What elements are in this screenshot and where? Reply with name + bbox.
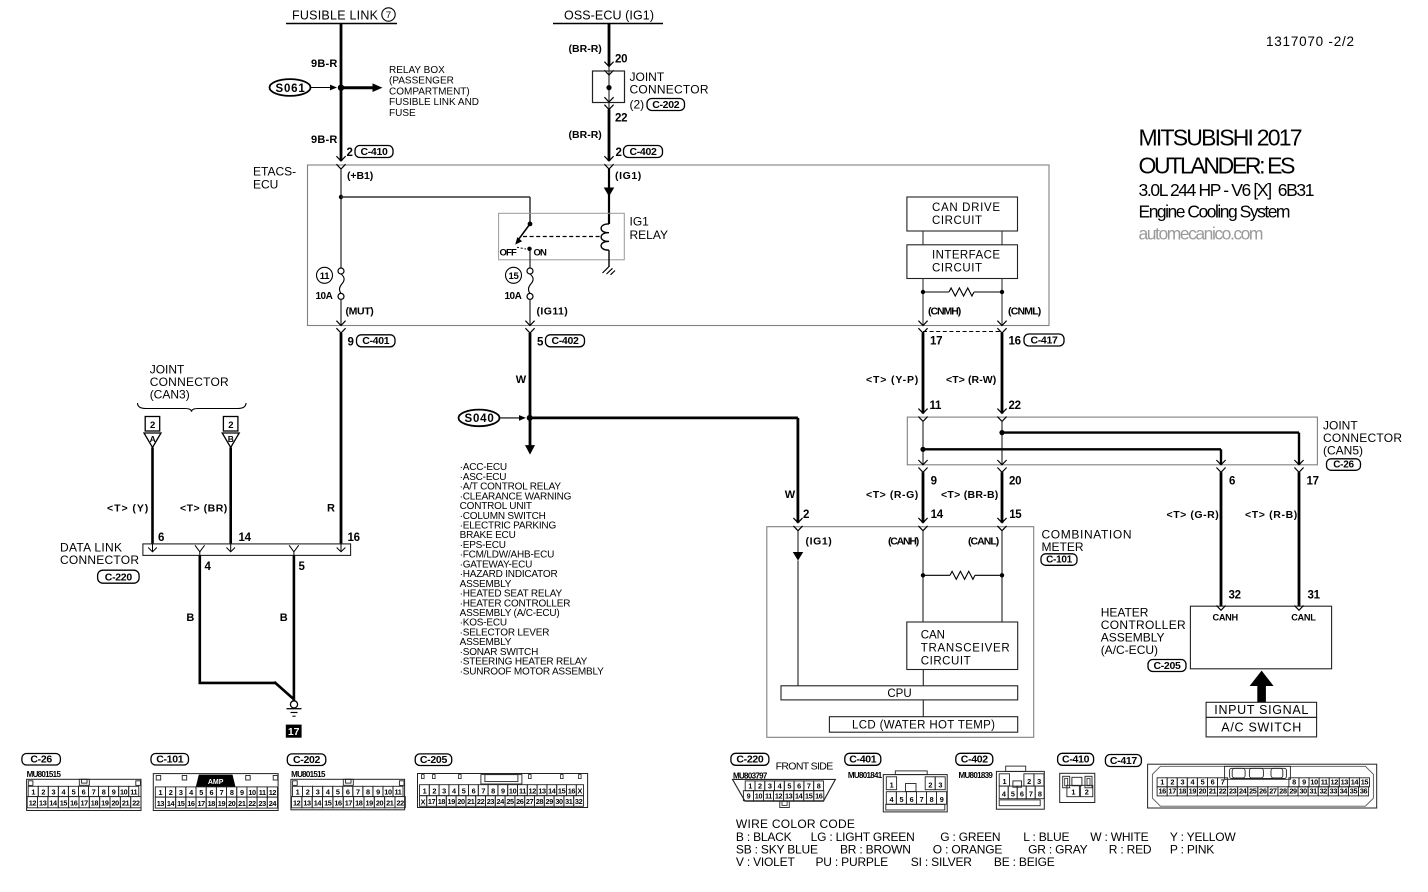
input signal arrow xyxy=(1250,671,1274,703)
relay switch arm xyxy=(515,224,530,245)
svg-text:20: 20 xyxy=(1009,476,1021,488)
svg-text:16: 16 xyxy=(815,792,823,801)
svg-text:Engine Cooling System: Engine Cooling System xyxy=(1139,202,1291,222)
wire OSS-ECU vertical BR-R lower xyxy=(608,110,611,162)
svg-text:20: 20 xyxy=(228,799,236,808)
svg-text:9B-R: 9B-R xyxy=(311,58,337,70)
arrow to relay box note xyxy=(344,83,383,92)
svg-text:17: 17 xyxy=(1307,476,1319,488)
title block xyxy=(1139,125,1315,244)
svg-text:30: 30 xyxy=(1299,787,1307,796)
svg-text:C-205: C-205 xyxy=(1153,660,1181,672)
svg-text:12: 12 xyxy=(529,787,537,796)
connector C-101 pinout xyxy=(151,753,278,810)
svg-text:C-417: C-417 xyxy=(1030,334,1058,346)
svg-text:8: 8 xyxy=(366,787,370,796)
svg-text:CAN: CAN xyxy=(921,630,945,642)
svg-text:2: 2 xyxy=(306,787,310,796)
connector label 2 C-402 top xyxy=(616,146,663,160)
wire CANH meter internal xyxy=(922,531,924,622)
svg-text:10: 10 xyxy=(384,787,392,796)
svg-text:5: 5 xyxy=(787,782,791,791)
connector C-402 pinout xyxy=(956,753,1045,809)
svg-text:15: 15 xyxy=(60,799,68,808)
svg-text:5: 5 xyxy=(537,337,544,349)
svg-text:13: 13 xyxy=(785,792,793,801)
entry chevrons IG1 meter xyxy=(793,518,802,531)
svg-text:8: 8 xyxy=(817,782,821,791)
svg-text:6: 6 xyxy=(472,787,476,796)
svg-text:23: 23 xyxy=(487,797,495,806)
svg-text:TRANSCEIVER: TRANSCEIVER xyxy=(921,643,1010,655)
svg-text:17: 17 xyxy=(80,799,88,808)
svg-text:22: 22 xyxy=(1219,787,1227,796)
svg-text:8: 8 xyxy=(1038,790,1042,799)
svg-text:1317070 -2/2: 1317070 -2/2 xyxy=(1266,34,1354,49)
svg-text:C-101: C-101 xyxy=(156,753,184,765)
svg-text:C-410: C-410 xyxy=(360,146,388,158)
svg-text:9: 9 xyxy=(376,787,380,796)
svg-text:A: A xyxy=(150,434,156,444)
svg-text:19: 19 xyxy=(365,799,373,808)
wire color code line 2 xyxy=(736,843,1214,857)
svg-text:15: 15 xyxy=(558,787,566,796)
svg-text:17: 17 xyxy=(288,726,300,738)
wire T Y to data link xyxy=(151,448,154,544)
svg-text:3: 3 xyxy=(316,787,320,796)
svg-text:RELAY BOX: RELAY BOX xyxy=(389,65,445,76)
svg-text:2: 2 xyxy=(150,420,155,431)
svg-text:22: 22 xyxy=(1009,400,1021,412)
svg-text:1: 1 xyxy=(1003,777,1007,786)
svg-text:15: 15 xyxy=(509,271,520,282)
svg-text:<T> (BR-B): <T> (BR-B) xyxy=(941,489,998,501)
svg-text:18: 18 xyxy=(355,799,363,808)
svg-text:(IG1): (IG1) xyxy=(806,536,832,548)
svg-text:20: 20 xyxy=(615,54,627,66)
svg-text:32: 32 xyxy=(1320,787,1328,796)
svg-text:16: 16 xyxy=(568,787,576,796)
svg-text:19: 19 xyxy=(101,799,109,808)
relay ON contact xyxy=(527,247,531,251)
svg-text:MU801515: MU801515 xyxy=(27,770,62,779)
svg-text:31: 31 xyxy=(565,797,573,806)
svg-text:23: 23 xyxy=(259,799,267,808)
svg-text:CANH: CANH xyxy=(1213,613,1239,623)
wire transceiver to cpu xyxy=(922,670,924,686)
svg-text:6: 6 xyxy=(1211,778,1215,787)
svg-text:27: 27 xyxy=(526,797,534,806)
svg-text:3.0L 244 HP - V6 [X] 6B31: 3.0L 244 HP - V6 [X] 6B31 xyxy=(1139,180,1315,200)
svg-text:22: 22 xyxy=(132,799,140,808)
connector label 9 C-401 xyxy=(348,335,396,349)
svg-text:7: 7 xyxy=(386,10,391,21)
connector C-410 pinout xyxy=(1058,753,1095,802)
svg-text:(BR-R): (BR-R) xyxy=(569,129,602,141)
svg-text:3: 3 xyxy=(768,782,772,791)
wire relay ON to fuse 15 xyxy=(529,251,531,268)
svg-text:18: 18 xyxy=(91,799,99,808)
svg-text:V : VIOLET: V : VIOLET xyxy=(736,855,796,869)
svg-text:PU : PURPLE: PU : PURPLE xyxy=(816,855,889,869)
ground relay coil xyxy=(603,266,616,275)
svg-text:10: 10 xyxy=(1310,778,1318,787)
IG1 feed arrow into relay xyxy=(604,188,615,197)
svg-text:5: 5 xyxy=(199,788,203,797)
svg-text:C-402: C-402 xyxy=(551,335,579,347)
dlc pin chevrons xyxy=(148,544,345,556)
svg-text:3: 3 xyxy=(179,788,183,797)
svg-text:5: 5 xyxy=(336,787,340,796)
svg-text:(+B1): (+B1) xyxy=(347,170,373,182)
entry chevrons pin 11 xyxy=(918,409,927,422)
svg-text:15: 15 xyxy=(324,799,332,808)
svg-text:ETACS-: ETACS- xyxy=(253,165,296,179)
wire IG1 to relay coil xyxy=(608,169,610,224)
svg-text:25: 25 xyxy=(1249,787,1257,796)
wire +B1 internal vertical xyxy=(340,169,342,268)
node branch to relay switch xyxy=(339,195,343,199)
svg-text:B: B xyxy=(280,612,288,624)
svg-text:18: 18 xyxy=(1179,787,1187,796)
svg-text:OFF: OFF xyxy=(500,248,517,259)
wire G-R to heater xyxy=(1220,472,1223,606)
wire branch horizontal to relay xyxy=(341,196,530,198)
svg-text:2: 2 xyxy=(1085,788,1089,797)
exit chevrons pin 17 can5 xyxy=(1294,460,1303,472)
svg-text:17: 17 xyxy=(428,797,436,806)
svg-text:B: B xyxy=(228,434,234,444)
svg-text:COMPARTMENT): COMPARTMENT) xyxy=(389,86,470,97)
relay actuation dashed line xyxy=(523,236,602,238)
svg-text:<T> (R-G): <T> (R-G) xyxy=(866,489,918,501)
svg-text:16: 16 xyxy=(1009,336,1021,348)
node CNML resistor xyxy=(1000,290,1004,294)
svg-text:15: 15 xyxy=(177,799,185,808)
svg-text:CIRCUIT: CIRCUIT xyxy=(921,656,971,668)
svg-text:(CAN3): (CAN3) xyxy=(150,388,190,402)
heater controller assembly box xyxy=(1190,606,1331,669)
svg-text:C-26: C-26 xyxy=(1333,460,1354,471)
svg-text:1: 1 xyxy=(1071,788,1075,797)
data link connector strip xyxy=(143,544,351,556)
svg-text:19: 19 xyxy=(448,797,456,806)
svg-text:(CANL): (CANL) xyxy=(968,536,999,548)
svg-text:(MUT): (MUT) xyxy=(346,306,374,318)
svg-text:16: 16 xyxy=(1158,787,1166,796)
svg-text:C-101: C-101 xyxy=(1046,555,1072,566)
svg-text:11: 11 xyxy=(259,788,266,797)
wire fuse15 to etacs bottom xyxy=(529,299,531,325)
svg-text:16: 16 xyxy=(334,799,342,808)
svg-text:ECU: ECU xyxy=(253,178,278,192)
connector C-417 pinout xyxy=(1105,755,1376,809)
wire can5 horizontal CANH xyxy=(923,448,1221,450)
svg-text:15: 15 xyxy=(1361,778,1369,787)
wire color code line 3 xyxy=(736,855,1055,869)
svg-text:11: 11 xyxy=(519,787,526,796)
svg-text:2: 2 xyxy=(169,788,173,797)
svg-text:18: 18 xyxy=(438,797,446,806)
wire fuse11 to etacs bottom xyxy=(340,299,342,325)
svg-text:FUSE: FUSE xyxy=(389,108,416,119)
svg-text:16: 16 xyxy=(187,799,195,808)
svg-text:RELAY: RELAY xyxy=(630,228,668,242)
wire B pin5 xyxy=(293,555,296,700)
entry chevron CANL heater xyxy=(1294,606,1303,611)
svg-text:25: 25 xyxy=(506,797,514,806)
svg-text:9: 9 xyxy=(931,476,937,488)
svg-text:28: 28 xyxy=(536,797,544,806)
A/C SWITCH box xyxy=(1206,717,1317,737)
svg-text:(IG1): (IG1) xyxy=(615,170,641,182)
svg-text:17: 17 xyxy=(345,799,353,808)
svg-text:6: 6 xyxy=(346,787,350,796)
svg-text:23: 23 xyxy=(1229,787,1237,796)
svg-text:C-401: C-401 xyxy=(362,335,390,347)
wire color code line 1 xyxy=(736,830,1236,844)
svg-text:R : RED: R : RED xyxy=(1109,843,1152,857)
connector C-26 pinout xyxy=(22,753,141,810)
exit chevrons MUT xyxy=(336,321,345,333)
svg-text:21: 21 xyxy=(238,799,246,808)
svg-text:9: 9 xyxy=(940,795,944,804)
svg-text:6: 6 xyxy=(910,795,914,804)
exit chevrons pin 9 xyxy=(918,460,927,472)
svg-text:3: 3 xyxy=(442,787,446,796)
connector C-401 pinout xyxy=(845,753,947,812)
svg-text:3: 3 xyxy=(1180,778,1184,787)
brace under CAN3 xyxy=(138,403,247,412)
svg-text:S061: S061 xyxy=(276,83,306,95)
wire coil to ground xyxy=(608,250,610,266)
svg-text:10: 10 xyxy=(509,787,517,796)
connector label 5 C-402 xyxy=(537,335,585,349)
svg-text:26: 26 xyxy=(1259,787,1267,796)
svg-text:W: W xyxy=(516,374,527,386)
svg-text:7: 7 xyxy=(1221,778,1225,787)
svg-text:7: 7 xyxy=(807,782,811,791)
svg-text:MU801841: MU801841 xyxy=(848,771,883,780)
svg-text:16: 16 xyxy=(348,532,360,544)
svg-text:C-402: C-402 xyxy=(961,754,989,766)
svg-text:21: 21 xyxy=(1209,787,1217,796)
svg-text:1: 1 xyxy=(159,788,163,797)
svg-text:MITSUBISHI 2017: MITSUBISHI 2017 xyxy=(1139,125,1303,151)
svg-text:8: 8 xyxy=(1292,778,1296,787)
svg-text:S040: S040 xyxy=(465,413,494,425)
svg-text:INPUT SIGNAL: INPUT SIGNAL xyxy=(1214,703,1308,717)
wire OSS-ECU vertical BR-R upper xyxy=(608,24,611,67)
diode arrow IG1 meter xyxy=(793,552,804,561)
wire can5 CANL down xyxy=(1298,433,1300,465)
wire R-B to heater xyxy=(1298,472,1301,606)
node CNMH resistor xyxy=(921,290,925,294)
svg-text:8: 8 xyxy=(491,787,495,796)
entry chevrons pin 22 xyxy=(997,409,1006,422)
exit chevrons CNMH xyxy=(918,321,927,333)
svg-text:18: 18 xyxy=(208,799,216,808)
combination meter box xyxy=(767,527,1034,738)
svg-text:C-26: C-26 xyxy=(30,753,52,765)
svg-text:36: 36 xyxy=(1360,787,1368,796)
CAN drive circuit box U-A xyxy=(907,197,1018,231)
COMBINATION METER label xyxy=(1041,528,1132,566)
svg-text:10: 10 xyxy=(755,792,763,801)
wire can5 pass-through left xyxy=(922,421,924,464)
svg-text:<T> (R-B): <T> (R-B) xyxy=(1245,509,1297,521)
svg-text:FRONT SIDE: FRONT SIDE xyxy=(776,761,834,773)
fuse 15 10A xyxy=(505,267,534,302)
svg-text:5: 5 xyxy=(72,787,76,796)
svg-text:(2): (2) xyxy=(630,98,645,112)
heater controller text xyxy=(1101,606,1186,672)
svg-text:21: 21 xyxy=(467,797,475,806)
svg-text:7: 7 xyxy=(356,787,360,796)
svg-text:11: 11 xyxy=(130,787,137,796)
svg-text:6: 6 xyxy=(1229,476,1235,488)
svg-text:2: 2 xyxy=(432,787,436,796)
svg-text:MU801515: MU801515 xyxy=(291,770,326,779)
DATA LINK CONNECTOR label xyxy=(60,541,139,584)
exit chevrons pin 6 xyxy=(1216,460,1225,472)
svg-text:20: 20 xyxy=(112,799,120,808)
svg-text:X: X xyxy=(577,787,582,796)
svg-text:2: 2 xyxy=(1027,777,1031,786)
svg-text:B: B xyxy=(186,612,194,624)
svg-text:8: 8 xyxy=(102,787,106,796)
svg-text:22: 22 xyxy=(477,797,485,806)
svg-text:10: 10 xyxy=(120,787,128,796)
svg-text:12: 12 xyxy=(775,792,783,801)
svg-text:26: 26 xyxy=(516,797,524,806)
relay switch pivot xyxy=(528,222,533,227)
svg-text:CANL: CANL xyxy=(1291,613,1316,623)
joint connector CAN5 box xyxy=(907,417,1317,465)
svg-text:W: W xyxy=(785,489,796,501)
svg-text:2: 2 xyxy=(1170,778,1174,787)
svg-text:<T> (R-W): <T> (R-W) xyxy=(946,374,996,386)
svg-text:5: 5 xyxy=(462,787,466,796)
svg-text:29: 29 xyxy=(546,797,554,806)
wire fusible link vertical 9B-R xyxy=(340,24,343,162)
body ground 17 xyxy=(286,701,302,738)
wire CNML internal xyxy=(1001,279,1003,326)
svg-text:C-202: C-202 xyxy=(652,99,680,111)
twisted pair dashed link xyxy=(923,331,1002,333)
svg-text:automecanico.com: automecanico.com xyxy=(1139,224,1264,244)
entry chevrons IG1 xyxy=(604,156,613,169)
wire W vertical to meter xyxy=(797,418,800,523)
svg-text:8: 8 xyxy=(230,788,234,797)
IG1 RELAY label xyxy=(630,215,668,243)
joint connector CAN3 label xyxy=(150,363,229,402)
svg-text:9B-R: 9B-R xyxy=(311,134,337,146)
entry chevron CANH heater xyxy=(1216,606,1225,611)
wire CANH to meter xyxy=(922,472,925,522)
wire T R-W vertical xyxy=(1001,333,1004,413)
svg-text:17: 17 xyxy=(1169,787,1177,796)
svg-text:14: 14 xyxy=(239,532,252,544)
connector label 2 C-410 xyxy=(347,146,394,160)
svg-text:7: 7 xyxy=(220,788,224,797)
node CANL meter xyxy=(1000,573,1004,577)
OSS-ECU (IG1) label xyxy=(553,9,663,24)
svg-text:OUTLANDER: ES: OUTLANDER: ES xyxy=(1139,153,1296,179)
svg-text:11: 11 xyxy=(1321,778,1328,787)
svg-text:9: 9 xyxy=(240,788,244,797)
svg-text:8: 8 xyxy=(930,795,934,804)
splice S061 xyxy=(270,79,338,96)
svg-text:WIRE COLOR CODE: WIRE COLOR CODE xyxy=(736,817,855,831)
svg-text:19: 19 xyxy=(218,799,226,808)
svg-text:31: 31 xyxy=(1310,787,1318,796)
svg-text:<T> (BR): <T> (BR) xyxy=(180,503,227,515)
wire can5 horizontal CANL xyxy=(1002,431,1299,433)
wire IG1 meter internal xyxy=(797,531,799,552)
svg-text:R: R xyxy=(327,503,335,515)
svg-text:CIRCUIT: CIRCUIT xyxy=(932,215,982,227)
relay IG1 box xyxy=(499,213,625,259)
svg-text:2: 2 xyxy=(347,147,353,159)
svg-text:X: X xyxy=(421,797,426,806)
svg-text:CAN DRIVE: CAN DRIVE xyxy=(932,202,1000,214)
svg-text:<T> (Y-P): <T> (Y-P) xyxy=(866,374,918,386)
svg-text:2: 2 xyxy=(758,782,762,791)
joint connector CAN5 text xyxy=(1323,419,1402,471)
svg-text:C-220: C-220 xyxy=(736,754,764,766)
svg-text:1: 1 xyxy=(1160,778,1164,787)
svg-text:IG1: IG1 xyxy=(630,215,650,229)
svg-text:21: 21 xyxy=(122,799,130,808)
connector C-205 pinout xyxy=(415,754,587,808)
svg-text:2: 2 xyxy=(41,787,45,796)
svg-text:5: 5 xyxy=(299,561,306,573)
svg-text:9: 9 xyxy=(747,792,751,801)
wire can5 pass-through right xyxy=(1001,421,1003,464)
svg-text:2: 2 xyxy=(928,781,932,790)
svg-text:C-410: C-410 xyxy=(1062,754,1090,766)
svg-text:CONNECTOR: CONNECTOR xyxy=(60,553,139,567)
svg-text:27: 27 xyxy=(1269,787,1277,796)
wire CNMH internal xyxy=(922,279,924,326)
svg-text:7: 7 xyxy=(1029,790,1033,799)
svg-text:6: 6 xyxy=(82,787,86,796)
dashed link OFF to ON xyxy=(517,247,526,249)
svg-text:5: 5 xyxy=(1011,790,1015,799)
wire CANL meter internal xyxy=(1001,531,1003,622)
wire CANL to meter xyxy=(1001,472,1004,522)
entry chevrons CANH meter xyxy=(918,518,927,531)
svg-text:6: 6 xyxy=(797,782,801,791)
svg-text:16: 16 xyxy=(70,799,78,808)
wires can drive to interface xyxy=(923,231,1002,245)
svg-text:3: 3 xyxy=(938,781,942,790)
connector C-202 pinout xyxy=(287,754,405,810)
svg-text:9: 9 xyxy=(501,787,505,796)
svg-text:4: 4 xyxy=(205,561,212,573)
svg-text:(BR-R): (BR-R) xyxy=(569,43,602,55)
svg-text:33: 33 xyxy=(1330,787,1338,796)
svg-text:2: 2 xyxy=(228,420,233,431)
svg-text:C-402: C-402 xyxy=(629,146,657,158)
svg-text:7: 7 xyxy=(481,787,485,796)
svg-text:22: 22 xyxy=(248,799,256,808)
svg-text:22: 22 xyxy=(615,113,627,125)
svg-text:<T> (G-R): <T> (G-R) xyxy=(1167,509,1219,521)
svg-text:(A/C-ECU): (A/C-ECU) xyxy=(1101,643,1158,657)
fuse 11 10A xyxy=(316,267,345,302)
